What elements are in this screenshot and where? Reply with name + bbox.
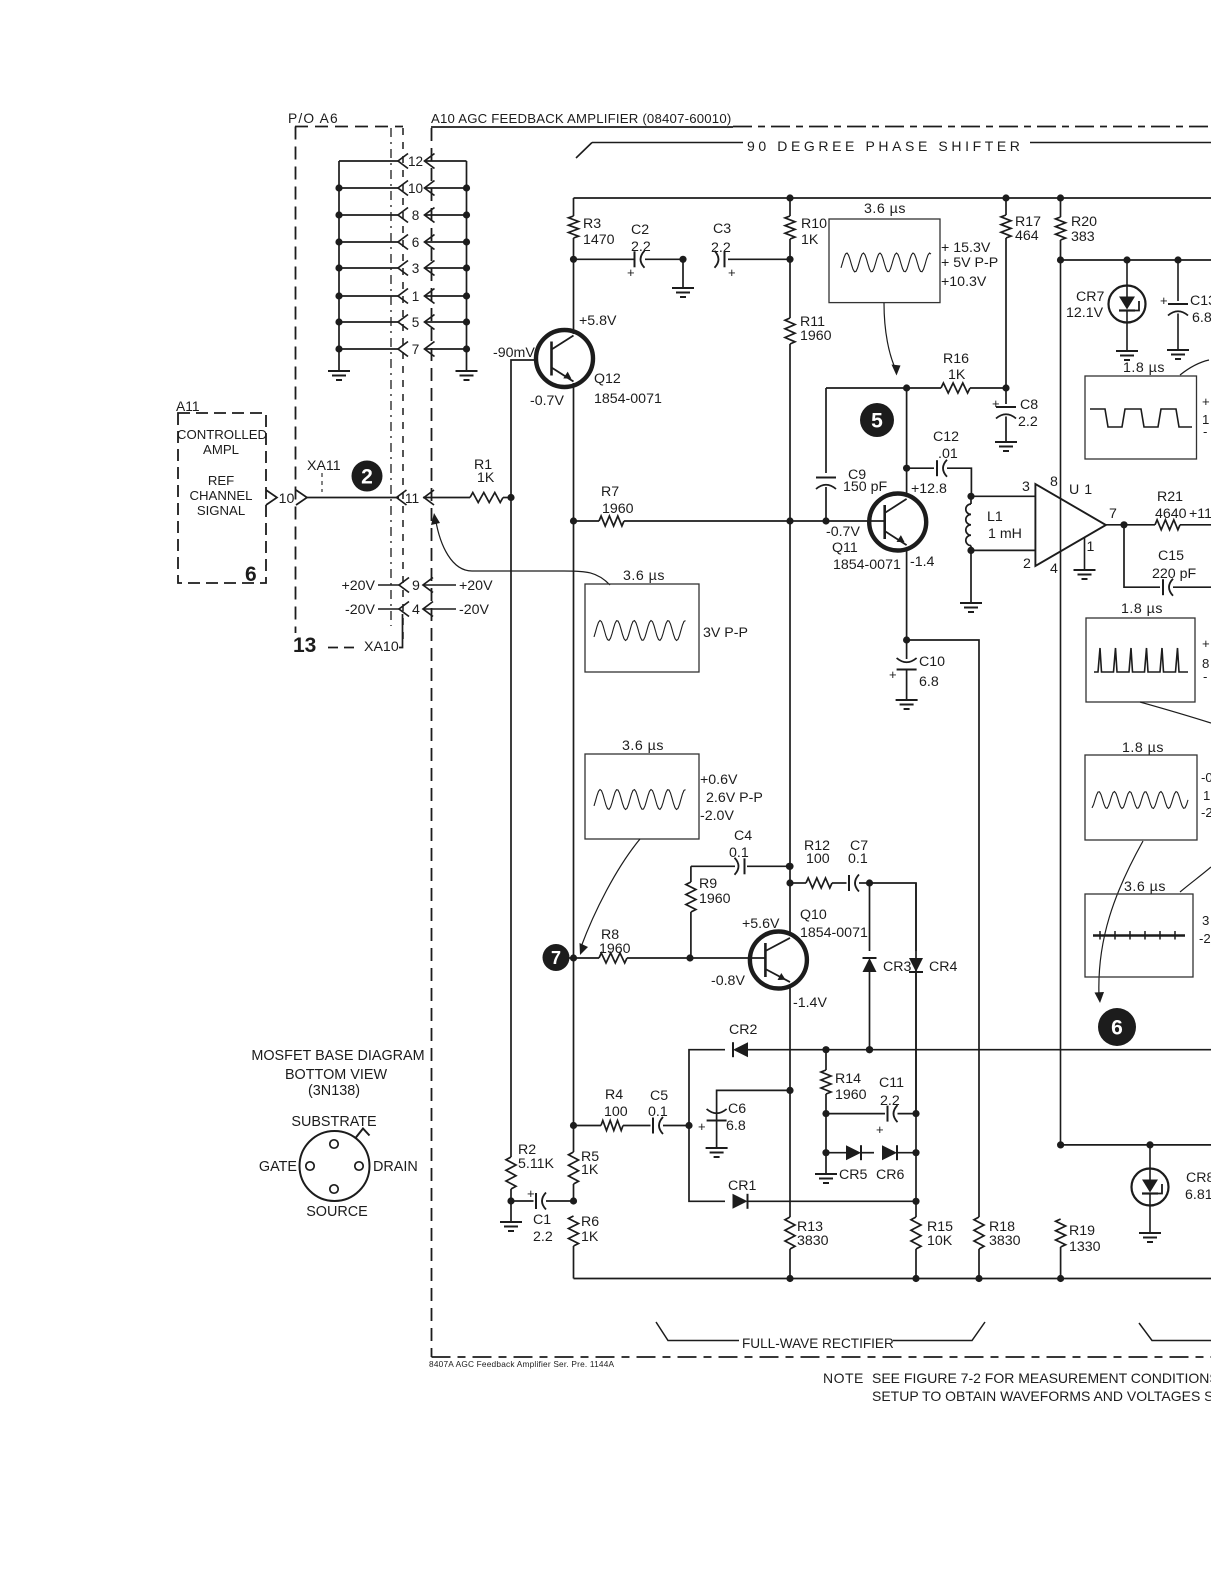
svg-text:R21: R21 xyxy=(1157,489,1183,505)
svg-text:464: 464 xyxy=(1015,228,1039,244)
svg-text:(3N138): (3N138) xyxy=(308,1083,360,1099)
ground CR8 xyxy=(1139,1233,1161,1242)
label note text xyxy=(872,1370,1211,1404)
svg-text:9: 9 xyxy=(412,578,420,594)
resistor R12 xyxy=(790,838,832,888)
svg-text:7: 7 xyxy=(1109,506,1117,522)
svg-text:R20: R20 xyxy=(1071,214,1097,230)
svg-text:3.6 µs: 3.6 µs xyxy=(1124,879,1166,895)
svg-text:MOSFET BASE DIAGRAM: MOSFET BASE DIAGRAM xyxy=(251,1048,424,1064)
wire U1 output xyxy=(1106,521,1128,528)
svg-text:3.6 µs: 3.6 µs xyxy=(623,568,665,584)
svg-text:383: 383 xyxy=(1071,229,1095,245)
svg-text:+: + xyxy=(728,265,736,280)
svg-text:-1.4V: -1.4V xyxy=(793,995,827,1011)
capacitor C8 xyxy=(992,388,1038,442)
wire Q11 emitter down xyxy=(903,548,910,644)
scope waveform box 3V P-P xyxy=(585,584,699,672)
resistor R21 xyxy=(1124,489,1211,530)
svg-text:R6: R6 xyxy=(581,1214,599,1230)
svg-text:CONTROLLED: CONTROLLED xyxy=(177,427,267,442)
resistor R7 xyxy=(574,484,885,526)
wire XA10 box bottom xyxy=(328,614,403,648)
svg-text:4: 4 xyxy=(1050,561,1058,577)
leader box5 to balloon 6 xyxy=(1095,841,1144,1003)
box A11 controlled amplifier (dashed) xyxy=(178,413,266,583)
svg-text:6: 6 xyxy=(1111,1017,1123,1040)
svg-text:C15: C15 xyxy=(1158,548,1184,564)
wire R4 junction xyxy=(570,1122,577,1129)
svg-text:90 DEGREE PHASE SHIFTER: 90 DEGREE PHASE SHIFTER xyxy=(747,138,1024,154)
wire U1 pin3 input xyxy=(971,479,1035,496)
svg-text:6.8: 6.8 xyxy=(919,674,939,690)
svg-text:GATE: GATE xyxy=(259,1159,297,1175)
capacitor C4 xyxy=(691,828,793,875)
capacitor C2 xyxy=(574,222,684,280)
wire CR8 feed xyxy=(1061,1141,1211,1148)
balloon 5 xyxy=(860,403,894,437)
label U1 pin 4 xyxy=(1050,561,1058,577)
svg-text:1K: 1K xyxy=(948,367,966,383)
svg-text:-0: -0 xyxy=(1201,770,1211,785)
svg-text:AMPL: AMPL xyxy=(203,442,239,457)
wire connector boundary dash-dot xyxy=(390,128,392,626)
wire C7 to CR4 column xyxy=(870,883,917,951)
svg-text:C12: C12 xyxy=(933,429,959,445)
label square box voltages xyxy=(1202,394,1210,439)
svg-text:C1: C1 xyxy=(533,1212,551,1228)
ground C8 xyxy=(995,442,1017,451)
wire top dashed border right xyxy=(733,126,1211,128)
connector A11 pin 10 xyxy=(266,490,307,507)
label 3V P-P xyxy=(703,625,748,641)
svg-text:6.8: 6.8 xyxy=(726,1118,746,1134)
svg-text:0.1: 0.1 xyxy=(848,851,868,867)
capacitor C15 xyxy=(1124,525,1211,596)
label XA11 xyxy=(307,458,341,474)
resistor R3 xyxy=(569,216,615,248)
svg-text:2.2: 2.2 xyxy=(711,240,731,256)
svg-text:+: + xyxy=(1202,394,1210,409)
connector XA10 pin 11 xyxy=(397,490,435,506)
svg-text:SOURCE: SOURCE xyxy=(306,1204,368,1220)
svg-text:C5: C5 xyxy=(650,1088,668,1104)
leader arrow box1 to node 5 wire xyxy=(884,303,901,376)
wire R10 to C3 junction xyxy=(789,239,791,259)
svg-text:7: 7 xyxy=(412,342,420,357)
svg-text:R19: R19 xyxy=(1069,1223,1095,1239)
label Q11 1854-0071 xyxy=(832,540,901,573)
transistor Q10 xyxy=(750,932,807,989)
wire L1 to ground xyxy=(960,550,982,612)
svg-text:L1: L1 xyxy=(987,509,1003,525)
capacitor C9 xyxy=(816,388,888,525)
svg-text:7: 7 xyxy=(551,948,561,968)
svg-text:C8: C8 xyxy=(1020,397,1038,413)
svg-text:3: 3 xyxy=(1022,479,1030,495)
wire title underline xyxy=(431,126,733,128)
resistor R14 xyxy=(821,1050,867,1118)
wire top dashed border left (P/O A6) xyxy=(295,126,403,128)
wire long left column (emitter bus) xyxy=(573,521,575,1152)
wire U1 pin 1 to ground xyxy=(1074,538,1096,580)
svg-text:1854-0071: 1854-0071 xyxy=(800,925,868,941)
transistor Q12 xyxy=(536,330,593,387)
label NOTE xyxy=(823,1370,864,1386)
wire Q12 collector column xyxy=(573,259,575,334)
inductor L1 xyxy=(966,493,1022,554)
svg-text:6.8: 6.8 xyxy=(1192,310,1211,326)
svg-text:8: 8 xyxy=(412,208,420,223)
svg-text:0.1: 0.1 xyxy=(648,1104,668,1120)
capacitor C7 xyxy=(832,838,873,892)
svg-text:1.8 µs: 1.8 µs xyxy=(1121,601,1163,617)
ground C2/C3 midpoint xyxy=(672,256,694,297)
svg-text:2.6V P-P: 2.6V P-P xyxy=(706,790,763,806)
svg-text:-2: -2 xyxy=(1201,805,1211,820)
svg-text:+ 15.3V: + 15.3V xyxy=(941,240,991,256)
wire bottom dashed border xyxy=(432,1356,1211,1358)
capacitor C3 xyxy=(711,221,794,280)
svg-text:-: - xyxy=(1203,669,1207,684)
svg-text:1960: 1960 xyxy=(599,941,631,957)
svg-text:3V P-P: 3V P-P xyxy=(703,625,748,641)
label +5.6V xyxy=(742,916,780,932)
wire A10 board edge dashed border xyxy=(431,128,433,1357)
resistor R11 xyxy=(785,259,832,524)
scope waveform box spikes xyxy=(1086,618,1195,702)
op-amp U1 xyxy=(1035,482,1106,566)
svg-text:CR4: CR4 xyxy=(929,959,957,975)
svg-text:220 pF: 220 pF xyxy=(1152,566,1197,582)
diode CR4 xyxy=(909,958,957,1114)
leader box4 xyxy=(1140,702,1211,723)
svg-text:3: 3 xyxy=(412,261,420,276)
capacitor C12 xyxy=(907,429,972,496)
svg-text:-2.0V: -2.0V xyxy=(700,808,734,824)
svg-text:1854-0071: 1854-0071 xyxy=(594,391,662,407)
resistor R19 xyxy=(1056,1219,1101,1279)
svg-text:R16: R16 xyxy=(943,351,969,367)
svg-text:FULL-WAVE RECTIFIER: FULL-WAVE RECTIFIER xyxy=(742,1336,894,1351)
svg-text:Q12: Q12 xyxy=(594,371,621,387)
svg-text:13: 13 xyxy=(293,634,316,657)
resistor R18 xyxy=(974,1217,1021,1279)
label U1 pin 8 xyxy=(1050,474,1058,490)
label +0.6V 2.6V P-P -2.0V xyxy=(700,772,763,824)
svg-text:+20V: +20V xyxy=(459,578,493,594)
ground C6 xyxy=(706,1148,728,1157)
svg-text:1.8 µs: 1.8 µs xyxy=(1122,740,1164,756)
label Q10 1854-0071 xyxy=(800,907,868,941)
svg-text:0.1: 0.1 xyxy=(729,845,749,861)
svg-text:1960: 1960 xyxy=(699,891,731,907)
label A10 AGC FEEDBACK AMPLIFIER title xyxy=(431,111,731,126)
balloon 2 xyxy=(352,461,383,492)
balloon 6 xyxy=(1098,1008,1136,1046)
wire XA11 leader dash xyxy=(321,473,323,492)
svg-text:1.8 µs: 1.8 µs xyxy=(1123,360,1165,376)
svg-text:CR6: CR6 xyxy=(876,1167,904,1183)
diode CR3 xyxy=(863,883,912,1053)
label right section bracket xyxy=(1139,1323,1211,1341)
svg-text:1: 1 xyxy=(1087,539,1095,555)
svg-text:P/O A6: P/O A6 xyxy=(288,111,339,126)
svg-text:A11: A11 xyxy=(176,399,200,414)
svg-text:3.6 µs: 3.6 µs xyxy=(864,201,906,217)
resistor R8 xyxy=(599,927,694,963)
resistor R6 xyxy=(569,1214,600,1279)
svg-text:1330: 1330 xyxy=(1069,1239,1101,1255)
svg-text:C6: C6 xyxy=(728,1101,746,1117)
svg-text:+: + xyxy=(992,396,1000,411)
label Q12 1854-0071 xyxy=(594,371,662,407)
svg-text:5: 5 xyxy=(412,315,420,330)
label SUBSTRATE xyxy=(291,1114,376,1130)
svg-text:REF: REF xyxy=(208,473,234,488)
label DRAIN xyxy=(373,1159,418,1175)
svg-text:1854-0071: 1854-0071 xyxy=(833,557,901,573)
scope waveform box small sine xyxy=(1085,755,1197,840)
scope waveform box square wave xyxy=(1085,376,1197,459)
capacitor C11 xyxy=(826,1075,920,1137)
node -90mV (Q12 base line) xyxy=(493,345,538,1157)
diode CR8 (zener) xyxy=(1132,1145,1211,1233)
svg-text:C11: C11 xyxy=(879,1075,904,1091)
ground right connector bus xyxy=(456,371,478,380)
svg-text:.01: .01 xyxy=(938,446,958,462)
svg-text:-0.7V: -0.7V xyxy=(826,524,860,540)
svg-text:3830: 3830 xyxy=(989,1233,1021,1249)
label +15.3V +5V P-P +10.3V xyxy=(941,240,998,290)
svg-text:6: 6 xyxy=(245,563,257,586)
resistor R9 xyxy=(686,866,731,958)
svg-text:Q11: Q11 xyxy=(832,540,858,556)
svg-text:+: + xyxy=(527,1186,535,1201)
svg-text:6.81: 6.81 xyxy=(1185,1187,1211,1203)
label box6 voltages xyxy=(1199,913,1211,946)
label footer drawing title xyxy=(429,1359,615,1369)
svg-text:-: - xyxy=(1203,424,1207,439)
connector XA10 pin 3 xyxy=(339,261,467,277)
connector XA10 pin 9 (+20V) xyxy=(341,578,493,595)
wire R1 to -90mV node xyxy=(503,494,515,501)
svg-text:+5.8V: +5.8V xyxy=(579,313,617,329)
wire P/O A6 left dashed border xyxy=(295,127,297,634)
svg-text:10K: 10K xyxy=(927,1233,953,1249)
connector XA10 pin 7 xyxy=(339,342,467,358)
label P/O A6 xyxy=(288,111,339,126)
svg-text:U 1: U 1 xyxy=(1069,482,1093,498)
label -0.8V xyxy=(711,973,745,989)
capacitor C13 xyxy=(1160,260,1211,350)
svg-text:3: 3 xyxy=(1202,913,1209,928)
label +5.8V xyxy=(579,313,617,329)
svg-text:10: 10 xyxy=(408,181,424,196)
label box4 voltages xyxy=(1202,636,1210,684)
svg-text:2: 2 xyxy=(361,466,373,489)
wire node5 horizontal xyxy=(826,384,910,391)
diode CR5 xyxy=(826,1145,874,1183)
label 3.6 us (box6) xyxy=(1124,879,1166,895)
leader square box xyxy=(1180,360,1209,375)
scope waveform box flat trace xyxy=(1085,894,1193,977)
svg-text:-20V: -20V xyxy=(345,602,376,618)
ground CR7 xyxy=(1116,351,1138,360)
svg-text:C13: C13 xyxy=(1190,293,1211,309)
resistor R2 xyxy=(506,1142,555,1205)
svg-text:+5.6V: +5.6V xyxy=(742,916,780,932)
svg-text:+: + xyxy=(1160,293,1168,308)
label A11 xyxy=(176,399,200,414)
svg-text:100: 100 xyxy=(806,851,830,867)
svg-text:+20V: +20V xyxy=(341,578,375,594)
wire CR4/R15 column xyxy=(912,883,919,1217)
svg-text:CHANNEL: CHANNEL xyxy=(189,488,252,503)
connector XA10 pin 10 xyxy=(339,181,467,197)
wire pin 11 to R1 xyxy=(423,497,470,499)
svg-text:8407A AGC Feedback Amplifier S: 8407A AGC Feedback Amplifier Ser. Pre. 1… xyxy=(429,1359,615,1369)
svg-text:2.2: 2.2 xyxy=(1018,414,1038,430)
svg-text:CR3: CR3 xyxy=(883,959,911,975)
svg-text:R4: R4 xyxy=(605,1087,623,1103)
mosfet pin drain xyxy=(355,1162,363,1170)
mosfet package circle xyxy=(300,1129,370,1202)
wire U1 pin2 input xyxy=(971,550,1035,572)
label U1 pin 7 xyxy=(1109,506,1117,522)
leader arrow box3 to node 7 xyxy=(580,839,641,955)
ground left connector bus xyxy=(328,371,350,380)
svg-text:1.: 1. xyxy=(1203,788,1211,803)
wire node7 junction xyxy=(569,954,599,961)
svg-text:5.11K: 5.11K xyxy=(518,1156,555,1172)
scope waveform box 2.6V P-P xyxy=(585,754,699,839)
svg-text:+: + xyxy=(876,1122,884,1137)
diode CR6 xyxy=(876,1145,920,1183)
wire main top rail xyxy=(574,194,1211,201)
svg-text:4: 4 xyxy=(412,602,420,618)
svg-text:-20V: -20V xyxy=(459,602,490,618)
svg-text:100: 100 xyxy=(604,1104,628,1120)
capacitor C10 xyxy=(889,640,945,700)
svg-text:+0.6V: +0.6V xyxy=(700,772,738,788)
svg-text:R7: R7 xyxy=(601,484,619,500)
connector XA10 pin 8 xyxy=(339,208,467,224)
label GATE xyxy=(259,1159,297,1175)
label 90 DEGREE PHASE SHIFTER bracket xyxy=(576,138,1211,158)
wire bottom rail xyxy=(574,1275,1211,1282)
svg-text:8: 8 xyxy=(1050,474,1058,490)
svg-text:R3: R3 xyxy=(583,216,601,232)
svg-text:DRAIN: DRAIN xyxy=(373,1159,418,1175)
svg-text:SIGNAL: SIGNAL xyxy=(197,503,245,518)
svg-text:1K: 1K xyxy=(801,232,819,248)
svg-text:+: + xyxy=(698,1119,706,1134)
capacitor C6 xyxy=(698,1090,790,1148)
svg-text:2.2: 2.2 xyxy=(533,1229,553,1245)
wire Q10 base xyxy=(690,957,765,959)
label 1.8 us (square box) xyxy=(1123,360,1165,376)
svg-text:SETUP TO OBTAIN WAVEFORMS AND: SETUP TO OBTAIN WAVEFORMS AND VOLTAGES S… xyxy=(872,1388,1211,1404)
svg-text:+10.3V: +10.3V xyxy=(941,274,987,290)
resistor R17 xyxy=(1001,198,1041,388)
label +116 output voltage xyxy=(1189,506,1211,522)
wire R14 to CR5 row xyxy=(822,1114,829,1157)
svg-text:1K: 1K xyxy=(477,470,495,486)
label XA10 xyxy=(364,639,399,655)
resistor R10 xyxy=(785,198,827,248)
svg-text:C3: C3 xyxy=(713,221,731,237)
svg-text:3.6 µs: 3.6 µs xyxy=(622,738,664,754)
svg-text:+ 5V P-P: + 5V P-P xyxy=(941,255,998,271)
wire R20 column through op-amp (pin 8 rail) xyxy=(1057,260,1064,1149)
svg-text:SUBSTRATE: SUBSTRATE xyxy=(291,1114,376,1130)
svg-text:SEE FIGURE 7-2 FOR MEASUREMENT: SEE FIGURE 7-2 FOR MEASUREMENT CONDITION… xyxy=(872,1370,1211,1386)
label MOSFET BASE DIAGRAM xyxy=(251,1048,424,1099)
label 1.8 us (box5) xyxy=(1122,740,1164,756)
label 3.6 us (box1) xyxy=(864,201,906,217)
svg-text:12.1V: 12.1V xyxy=(1066,305,1104,321)
svg-text:1960: 1960 xyxy=(800,328,832,344)
scope waveform box 15.3V xyxy=(829,219,940,303)
svg-text:4640: 4640 xyxy=(1155,506,1187,522)
label -1.4V xyxy=(793,995,827,1011)
svg-text:+116: +116 xyxy=(1189,506,1211,522)
wire A11 pin10 to XA10 pin 11 xyxy=(307,497,399,499)
svg-text:R9: R9 xyxy=(699,876,717,892)
svg-text:CR2: CR2 xyxy=(729,1022,757,1038)
svg-text:C2: C2 xyxy=(631,222,649,238)
transistor Q11 xyxy=(869,494,926,551)
label FULL-WAVE RECTIFIER bracket xyxy=(656,1322,985,1351)
connector XA10 pin 6 xyxy=(339,235,467,251)
svg-text:1K: 1K xyxy=(581,1229,599,1245)
svg-text:-0.8V: -0.8V xyxy=(711,973,745,989)
resistor R20 xyxy=(1056,198,1098,264)
capacitor C5 xyxy=(623,1088,693,1134)
label 13 (section number) xyxy=(293,634,316,657)
connector XA10 pin 5 xyxy=(339,315,467,331)
connector XA10 pin 1 xyxy=(339,289,467,305)
svg-text:11: 11 xyxy=(405,491,419,506)
resistor R15 xyxy=(911,1217,953,1279)
svg-text:10: 10 xyxy=(279,491,295,507)
diode CR2 xyxy=(689,1022,1211,1126)
svg-text:-1.4: -1.4 xyxy=(910,554,935,570)
mosfet pin source xyxy=(330,1185,338,1193)
svg-text:R14: R14 xyxy=(835,1071,861,1087)
svg-text:A10 AGC FEEDBACK AMPLIFIER (0: A10 AGC FEEDBACK AMPLIFIER (08407-60010) xyxy=(431,111,731,126)
wire left ground bus of connector xyxy=(335,161,342,371)
label 3.6 us (box2) xyxy=(623,568,665,584)
svg-text:1K: 1K xyxy=(581,1162,599,1178)
leader arrow to pin 11 xyxy=(431,513,610,585)
wire Q11 collector xyxy=(903,388,910,494)
mosfet pin gate xyxy=(306,1162,314,1170)
label box5 voltages xyxy=(1201,770,1211,820)
label -0.7V (Q11 base) xyxy=(826,524,860,540)
svg-text:BOTTOM VIEW: BOTTOM VIEW xyxy=(285,1067,387,1083)
svg-text:6: 6 xyxy=(412,235,420,250)
ground C1/R2 xyxy=(500,1201,522,1231)
wire right ground bus of connector xyxy=(463,161,470,371)
resistor R4 xyxy=(574,1087,628,1131)
wire XA11 connector plane dashes xyxy=(402,128,404,644)
svg-text:XA10: XA10 xyxy=(364,639,399,655)
label 3.6 us (box3) xyxy=(622,738,664,754)
diode CR7 (zener) xyxy=(1066,260,1146,351)
balloon 7 xyxy=(543,944,570,971)
